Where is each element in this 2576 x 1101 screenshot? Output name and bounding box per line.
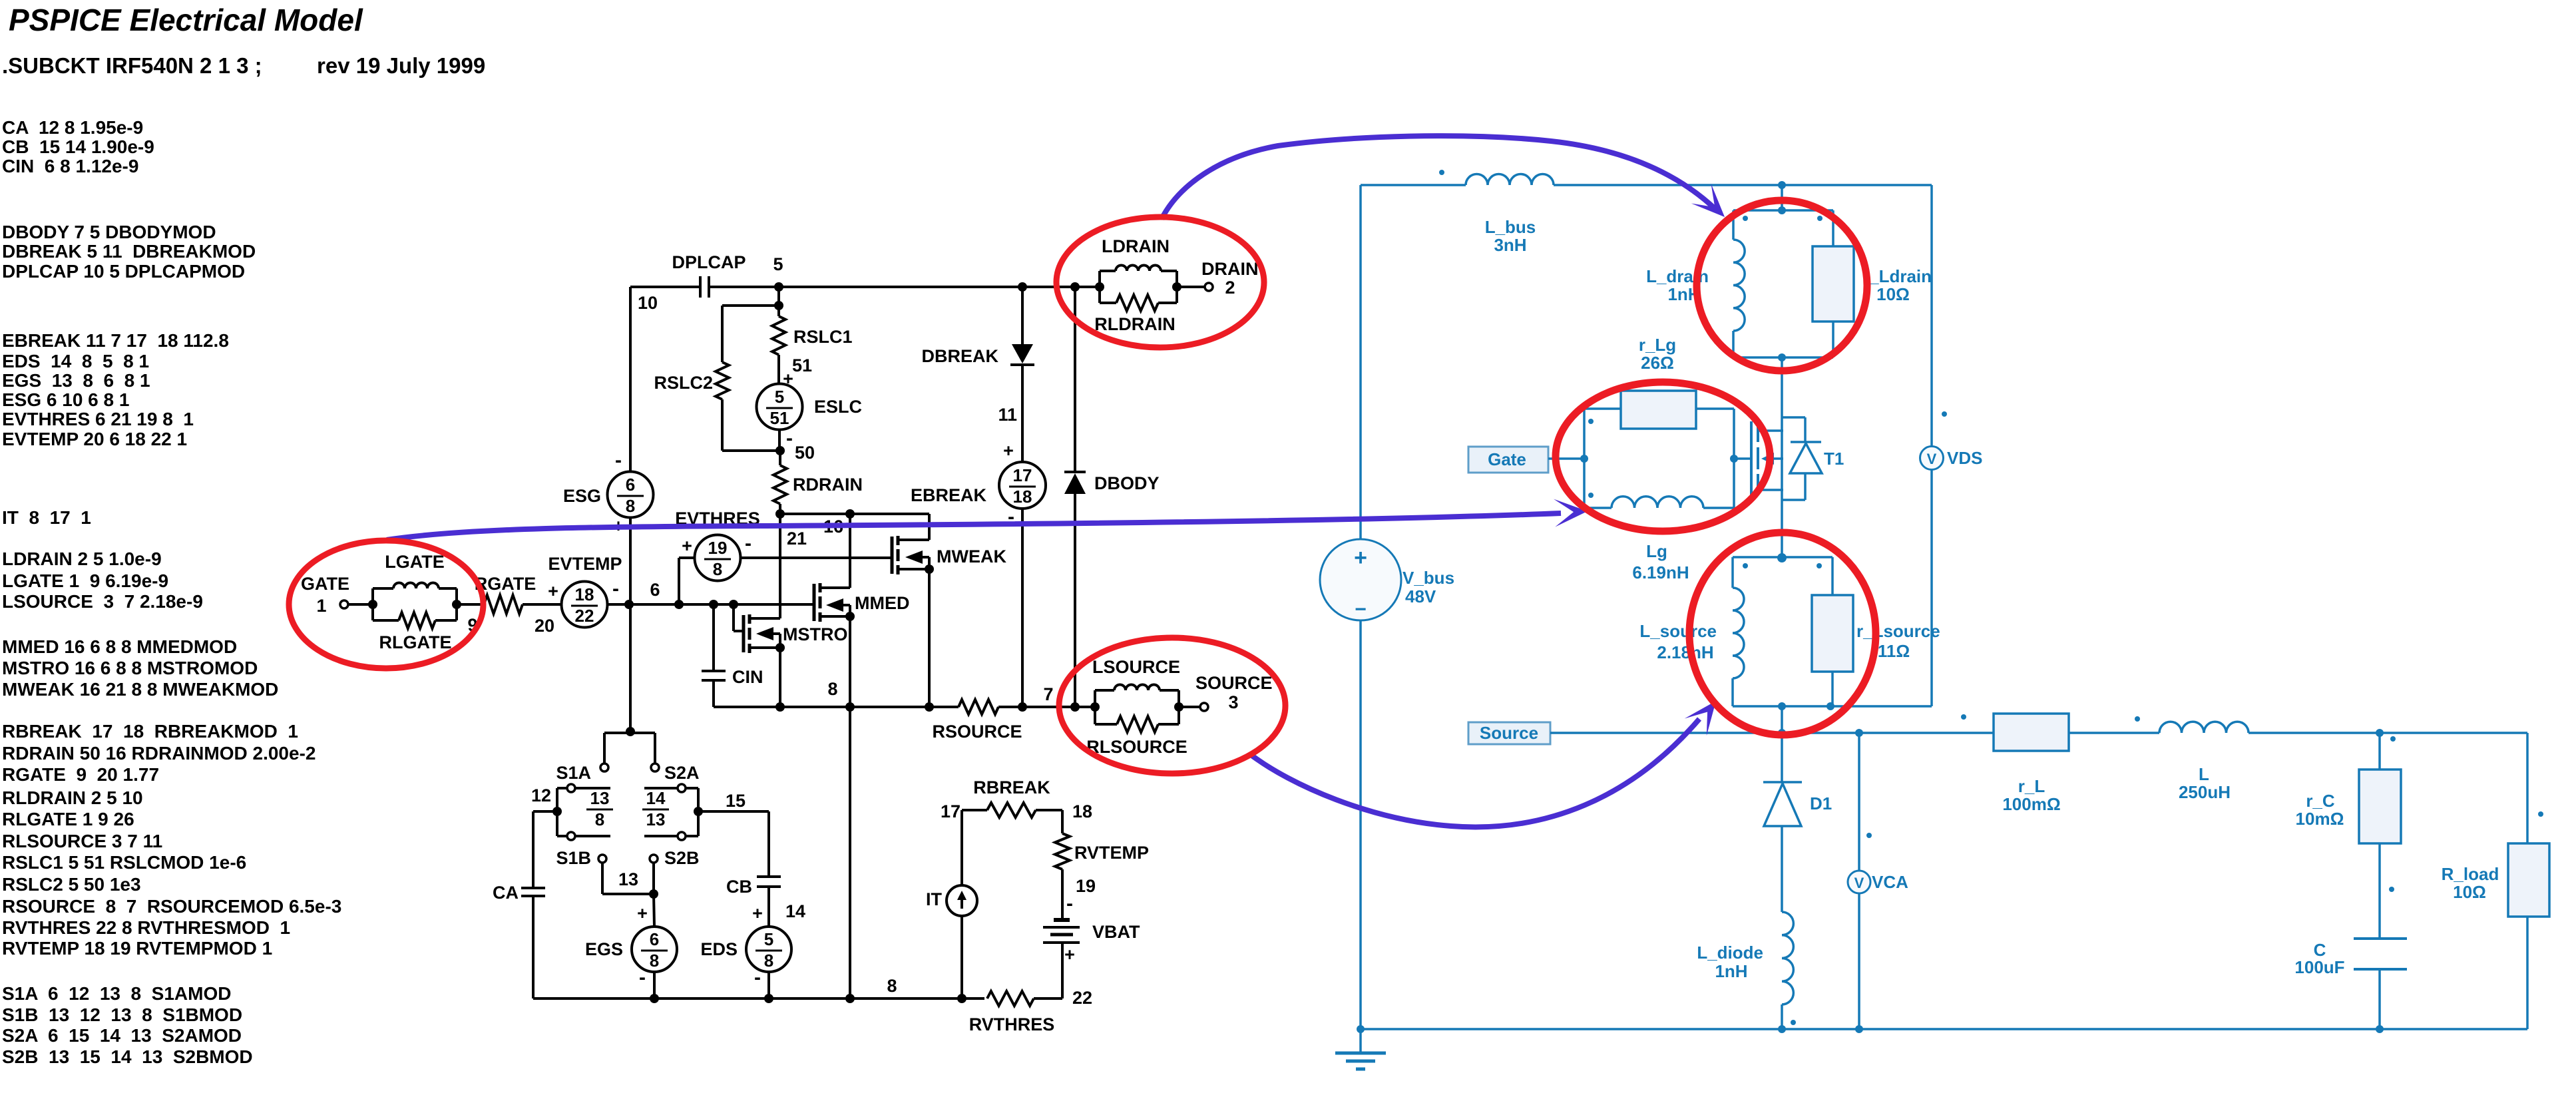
svg-text:DPLCAP 10 5 DPLCAPMOD: DPLCAP 10 5 DPLCAPMOD	[2, 261, 245, 282]
inductor Lg	[1584, 507, 1611, 509]
switch S1B	[567, 832, 575, 840]
svg-text:3nH: 3nH	[1494, 235, 1526, 255]
svg-text:RLSOURCE 3 7 11: RLSOURCE 3 7 11	[2, 831, 162, 851]
svg-text:S1A 6 12 13 8 S1AMOD: S1A 6 12 13 8 S1AMOD	[2, 983, 231, 1004]
svg-text:51: 51	[792, 355, 812, 375]
inductor L_diode	[1782, 912, 1793, 1004]
svg-text:L: L	[2199, 764, 2209, 784]
svg-text:ESG: ESG	[563, 486, 601, 506]
capacitor DPLCAP	[699, 276, 702, 298]
inductor L_source	[1777, 553, 1787, 562]
switch S2B	[678, 832, 686, 840]
svg-text:8: 8	[713, 559, 722, 579]
current source IT	[961, 810, 963, 886]
voltage source V_bus	[1359, 185, 1362, 539]
node 16 wire	[775, 509, 785, 519]
svg-text:CA 12 8 1.95e-9: CA 12 8 1.95e-9	[2, 117, 143, 138]
svg-text:DBODY: DBODY	[1094, 473, 1160, 493]
svg-text:11Ω: 11Ω	[1878, 641, 1910, 661]
svg-text:6: 6	[650, 580, 660, 600]
svg-text:8: 8	[887, 976, 897, 996]
svg-text:14: 14	[646, 788, 666, 808]
svg-text:ESLC: ESLC	[814, 397, 862, 417]
svg-text:18: 18	[1072, 801, 1092, 821]
svg-text:RVTHRES: RVTHRES	[969, 1014, 1055, 1034]
wire node16 to MMED drain	[849, 514, 851, 588]
svg-text:EVTHRES 6 21 19 8 1: EVTHRES 6 21 19 8 1	[2, 409, 194, 429]
svg-text:LSOURCE: LSOURCE	[1092, 657, 1180, 677]
svg-text:RLDRAIN: RLDRAIN	[1094, 314, 1176, 334]
terminal SOURCE node 3	[1179, 706, 1200, 708]
svg-text:5: 5	[775, 387, 784, 407]
svg-text:6.19nH: 6.19nH	[1632, 562, 1689, 582]
resistor RSLC1	[777, 306, 780, 316]
port Source	[1468, 722, 1550, 744]
svg-text:CIN 6 8 1.12e-9: CIN 6 8 1.12e-9	[2, 156, 138, 176]
svg-text:+: +	[1064, 945, 1075, 965]
svg-text:IT 8 17 1: IT 8 17 1	[2, 507, 91, 528]
svg-text:RDRAIN: RDRAIN	[793, 475, 863, 495]
switch network top bar	[626, 727, 635, 736]
svg-text:8: 8	[764, 951, 773, 971]
svg-text:26Ω: 26Ω	[1641, 353, 1674, 373]
highlight ellipse Lg blue	[1556, 382, 1770, 531]
resistor R_load	[2526, 733, 2529, 843]
svg-text:8: 8	[827, 679, 837, 699]
body diode T1	[1782, 416, 1805, 419]
switch S1A	[567, 784, 575, 792]
highlight ellipse LSOURCE	[1059, 638, 1285, 773]
svg-text:10: 10	[638, 293, 658, 313]
svg-text:RVTEMP 18 19 RVTEMPMOD 1: RVTEMP 18 19 RVTEMPMOD 1	[2, 938, 272, 959]
svg-text:20: 20	[535, 616, 554, 636]
svg-text:VDS: VDS	[1947, 448, 1982, 468]
highlight ellipse LDRAIN	[1056, 217, 1264, 347]
svg-text:R_load: R_load	[2442, 864, 2499, 884]
svg-text:MWEAK: MWEAK	[937, 547, 1006, 566]
svg-text:10Ω: 10Ω	[1876, 284, 1910, 304]
svg-text:SOURCE: SOURCE	[1195, 673, 1273, 693]
svg-text:48V: 48V	[1405, 586, 1436, 606]
svg-text:17: 17	[941, 801, 961, 821]
capacitor CA	[533, 810, 557, 813]
svg-text:13: 13	[646, 809, 666, 829]
svg-text:MSTRO: MSTRO	[783, 624, 848, 644]
inductor L_bus	[1466, 174, 1554, 185]
source rail	[1550, 732, 1994, 734]
resistor r_Lsource	[1831, 557, 1834, 595]
svg-text:100uF: 100uF	[2294, 957, 2344, 977]
svg-text:CIN: CIN	[732, 667, 763, 687]
svg-text:CB 15 14 1.90e-9: CB 15 14 1.90e-9	[2, 136, 154, 157]
svg-text:RLGATE: RLGATE	[379, 632, 452, 652]
svg-text:S2A 6 15 14 13 S2AMOD: S2A 6 15 14 13 S2AMOD	[2, 1025, 242, 1046]
svg-text:DBREAK: DBREAK	[921, 346, 998, 366]
arrow LSOURCE to L_source	[1250, 719, 1699, 827]
resistor RGATE	[457, 603, 484, 606]
svg-text:L_source: L_source	[1639, 621, 1717, 641]
svg-text:rev 19 July 1999: rev 19 July 1999	[317, 53, 485, 78]
resistor RDRAIN	[779, 451, 781, 465]
diode D1	[1781, 733, 1783, 782]
svg-text:100mΩ: 100mΩ	[2002, 794, 2060, 814]
blue circuit: top rail	[1361, 184, 1466, 186]
svg-text:12: 12	[531, 785, 551, 805]
svg-text:10Ω: 10Ω	[2453, 882, 2486, 902]
svg-text:Lg: Lg	[1646, 541, 1667, 561]
svg-text:22: 22	[575, 606, 594, 626]
node 6 wire	[608, 603, 815, 606]
svg-text:7: 7	[1043, 684, 1053, 704]
source ESG	[629, 287, 632, 472]
svg-text:EBREAK 11 7 17 18 112.8: EBREAK 11 7 17 18 112.8	[2, 330, 229, 351]
svg-text:2.18nH: 2.18nH	[1657, 642, 1713, 662]
transistor MWEAK	[891, 537, 894, 574]
svg-text:50: 50	[795, 443, 815, 463]
svg-text:VCA: VCA	[1872, 872, 1908, 892]
svg-text:S1B 13 12 13 8 S1BMOD: S1B 13 12 13 8 S1BMOD	[2, 1004, 242, 1025]
svg-text:LGATE: LGATE	[385, 552, 445, 572]
inductor LSOURCE parallel resistor RLSOURCE	[1090, 702, 1100, 712]
svg-text:RSLC1: RSLC1	[793, 327, 853, 347]
svg-text:S2B: S2B	[664, 848, 700, 868]
svg-text:T1: T1	[1824, 449, 1844, 469]
svg-text:V_bus: V_bus	[1402, 568, 1454, 588]
voltmeter VDS	[1930, 185, 1933, 446]
resistor RSOURCE	[959, 700, 998, 714]
svg-text:MSTRO 16 6 8 8 MSTROMOD: MSTRO 16 6 8 8 MSTROMOD	[2, 658, 258, 678]
svg-text:MMED 16 6 8 8 MMEDMOD: MMED 16 6 8 8 MMEDMOD	[2, 636, 237, 657]
node 50	[775, 446, 785, 455]
inductor LGATE parallel resistor RLGATE	[371, 588, 374, 620]
resistor RSLC2	[722, 304, 779, 307]
svg-text:15: 15	[726, 791, 746, 811]
svg-text:RLSOURCE: RLSOURCE	[1086, 737, 1187, 757]
svg-text:MMED: MMED	[855, 593, 910, 613]
svg-text:17: 17	[1013, 465, 1032, 485]
svg-text:V: V	[1927, 451, 1937, 467]
svg-text:DBODY 7 5 DBODYMOD: DBODY 7 5 DBODYMOD	[2, 222, 216, 242]
wire node16 to MSTRO drain	[779, 514, 781, 618]
svg-text:RBREAK 17 18 RBREAKMOD 1: RBREAK 17 18 RBREAKMOD 1	[2, 721, 298, 742]
svg-text:DRAIN: DRAIN	[1201, 259, 1259, 279]
svg-text:RSOURCE 8 7 RSOURCEMOD 6.5e: RSOURCE 8 7 RSOURCEMOD 6.5e-3	[2, 896, 341, 917]
svg-text:+: +	[1003, 441, 1014, 461]
svg-text:14: 14	[785, 901, 805, 921]
svg-text:EVTEMP: EVTEMP	[548, 554, 622, 574]
voltmeter VCA	[1858, 733, 1860, 871]
node 8 vertical wire	[849, 707, 851, 998]
svg-text:13: 13	[618, 869, 638, 889]
svg-text:ESG 6 10 6 8 1: ESG 6 10 6 8 1	[2, 389, 129, 410]
svg-text:D1: D1	[1810, 793, 1832, 813]
svg-text:6: 6	[650, 929, 659, 949]
svg-text:r_Lsource: r_Lsource	[1856, 621, 1940, 641]
svg-text:r_C: r_C	[2306, 791, 2335, 811]
inductor LDRAIN parallel resistor RLDRAIN	[1095, 282, 1104, 292]
diode DBODY	[1070, 282, 1080, 292]
svg-text:10mΩ: 10mΩ	[2296, 809, 2344, 829]
transistor T1	[1734, 457, 1751, 460]
svg-text:RSLC2: RSLC2	[654, 373, 713, 393]
svg-text:-: -	[786, 427, 793, 449]
svg-text:RSLC2 5 50 1e3: RSLC2 5 50 1e3	[2, 874, 141, 895]
highlight ellipse L_source blue	[1689, 533, 1876, 735]
inductor L_drain	[1733, 209, 1833, 212]
arrow LGATE to Lg	[387, 513, 1561, 540]
svg-text:RVTEMP: RVTEMP	[1074, 843, 1149, 863]
transistor MSTRO	[732, 604, 735, 631]
svg-text:S2B 13 15 14 13 S2BMOD: S2B 13 15 14 13 S2BMOD	[2, 1046, 253, 1067]
capacitor C	[2354, 937, 2407, 940]
svg-text:-: -	[615, 449, 622, 471]
svg-text:19: 19	[708, 538, 728, 558]
inductor L	[2135, 716, 2140, 722]
svg-text:3: 3	[1228, 692, 1238, 712]
svg-text:51: 51	[770, 408, 789, 428]
svg-text:RVTHRES 22 8 RVTHRESMOD 1: RVTHRES 22 8 RVTHRESMOD 1	[2, 917, 290, 938]
resistor r_Ldrain	[1832, 210, 1834, 246]
highlight ellipse LGATE	[289, 541, 483, 668]
svg-text:LSOURCE 3 7 2.18e-9: LSOURCE 3 7 2.18e-9	[2, 591, 203, 612]
bottom rail	[1361, 1028, 2527, 1030]
wire node5 to RSLC branch	[777, 287, 780, 306]
svg-text:8: 8	[626, 496, 635, 516]
highlight ellipse L_drain blue	[1697, 200, 1867, 371]
svg-text:EVTEMP 20 6 18 22 1: EVTEMP 20 6 18 22 1	[2, 429, 187, 449]
node 5	[774, 282, 783, 292]
transistor MMED	[813, 584, 816, 621]
wire node 8 upper rail	[714, 706, 959, 708]
svg-text:-: -	[612, 578, 619, 600]
node 15 wire capacitor CB	[698, 810, 769, 813]
resistor RVTHRES	[987, 991, 1034, 1006]
svg-text:-: -	[639, 967, 646, 989]
svg-text:V: V	[1854, 875, 1864, 891]
svg-text:DBREAK 5 11 DBREAKMOD: DBREAK 5 11 DBREAKMOD	[2, 241, 256, 262]
svg-text:CA: CA	[493, 883, 519, 903]
svg-text:L_diode: L_diode	[1697, 943, 1763, 963]
port Gate	[1468, 447, 1548, 473]
resistor RVTEMP	[1061, 810, 1064, 833]
svg-text:EGS: EGS	[585, 939, 623, 959]
svg-text:8: 8	[650, 951, 659, 971]
svg-text:250uH: 250uH	[2179, 782, 2231, 802]
svg-text:RSLC1 5 51 RSLCMOD 1e-6: RSLC1 5 51 RSLCMOD 1e-6	[2, 852, 246, 873]
resistor r_L	[1961, 714, 1966, 720]
switch S2A	[678, 784, 686, 792]
svg-text:13: 13	[590, 788, 610, 808]
svg-text:LDRAIN: LDRAIN	[1102, 236, 1170, 256]
svg-text:CB: CB	[726, 877, 752, 897]
wire top rail node 5	[630, 286, 700, 288]
resistor r_C	[2376, 729, 2384, 737]
svg-text:21: 21	[787, 529, 807, 549]
svg-text:RGATE 9 20 1.77: RGATE 9 20 1.77	[2, 764, 159, 785]
svg-text:−: −	[1355, 598, 1367, 620]
svg-text:Source: Source	[1480, 723, 1538, 743]
svg-text:r_Lg: r_Lg	[1639, 335, 1676, 355]
svg-text:r_Ldrain: r_Ldrain	[1862, 266, 1932, 286]
svg-text:DPLCAP: DPLCAP	[672, 252, 746, 272]
diode DBREAK	[1018, 282, 1027, 292]
svg-text:1nH: 1nH	[1715, 961, 1747, 981]
capacitor CIN	[712, 604, 715, 671]
arrow LDRAIN to L_drain	[1162, 136, 1716, 219]
svg-text:+: +	[682, 536, 692, 556]
svg-text:RBREAK: RBREAK	[973, 777, 1050, 797]
svg-text:2: 2	[1225, 278, 1235, 298]
node 8 bottom rail	[533, 997, 984, 1000]
svg-text:PSPICE Electrical Model: PSPICE Electrical Model	[9, 3, 363, 37]
svg-text:-: -	[754, 967, 761, 989]
svg-text:EDS 14 8 5 8 1: EDS 14 8 5 8 1	[2, 351, 149, 371]
svg-text:-: -	[745, 533, 751, 554]
wire to drain combo	[1778, 181, 1786, 189]
svg-text:19: 19	[1076, 876, 1096, 896]
svg-text:LDRAIN 2 5 1.0e-9: LDRAIN 2 5 1.0e-9	[2, 549, 162, 569]
resistor RBREAK	[962, 809, 987, 811]
svg-text:EBREAK: EBREAK	[911, 485, 987, 505]
ground	[1357, 1025, 1365, 1033]
node 7	[1018, 702, 1027, 712]
svg-text:EGS 13 8 6 8 1: EGS 13 8 6 8 1	[2, 370, 150, 391]
svg-text:RSOURCE: RSOURCE	[932, 722, 1022, 742]
svg-text:S2A: S2A	[664, 763, 700, 783]
svg-text:GATE: GATE	[301, 574, 349, 594]
resistor r_Lg	[1583, 409, 1586, 508]
svg-text:EDS: EDS	[700, 939, 738, 959]
svg-text:18: 18	[1013, 487, 1032, 507]
svg-text:18: 18	[575, 584, 594, 604]
svg-text:5: 5	[773, 254, 783, 274]
svg-text:r_L: r_L	[2018, 776, 2045, 796]
svg-text:Gate: Gate	[1488, 449, 1526, 469]
svg-text:22: 22	[1072, 988, 1092, 1008]
svg-text:+: +	[752, 903, 763, 923]
svg-text:S1A: S1A	[556, 763, 591, 783]
terminal DRAIN node 2	[1177, 286, 1205, 288]
svg-text:11: 11	[998, 405, 1017, 425]
svg-text:LGATE 1 9 6.19e-9: LGATE 1 9 6.19e-9	[2, 570, 168, 591]
svg-text:RLGATE 1 9 26: RLGATE 1 9 26	[2, 809, 134, 829]
svg-text:5: 5	[764, 929, 773, 949]
svg-text:IT: IT	[926, 889, 943, 909]
svg-text:1: 1	[316, 596, 326, 616]
svg-text:+: +	[1354, 545, 1367, 570]
svg-text:MWEAK 16 21 8 8 MWEAKMOD: MWEAK 16 21 8 8 MWEAKMOD	[2, 679, 278, 700]
svg-text:+: +	[548, 581, 558, 601]
svg-text:VBAT: VBAT	[1092, 922, 1140, 942]
svg-text:L_bus: L_bus	[1485, 217, 1536, 237]
svg-text:+: +	[637, 903, 648, 923]
svg-text:.SUBCKT IRF540N 2 1 3 ;: .SUBCKT IRF540N 2 1 3 ;	[2, 53, 262, 78]
svg-text:RLDRAIN 2 5 10: RLDRAIN 2 5 10	[2, 787, 143, 808]
svg-text:S1B: S1B	[556, 848, 591, 868]
svg-text:RDRAIN 50 16 RDRAINMOD 2.00e-2: RDRAIN 50 16 RDRAINMOD 2.00e-2	[2, 743, 316, 764]
svg-text:-: -	[1066, 893, 1073, 915]
svg-text:8: 8	[595, 809, 604, 829]
svg-text:6: 6	[626, 475, 635, 495]
